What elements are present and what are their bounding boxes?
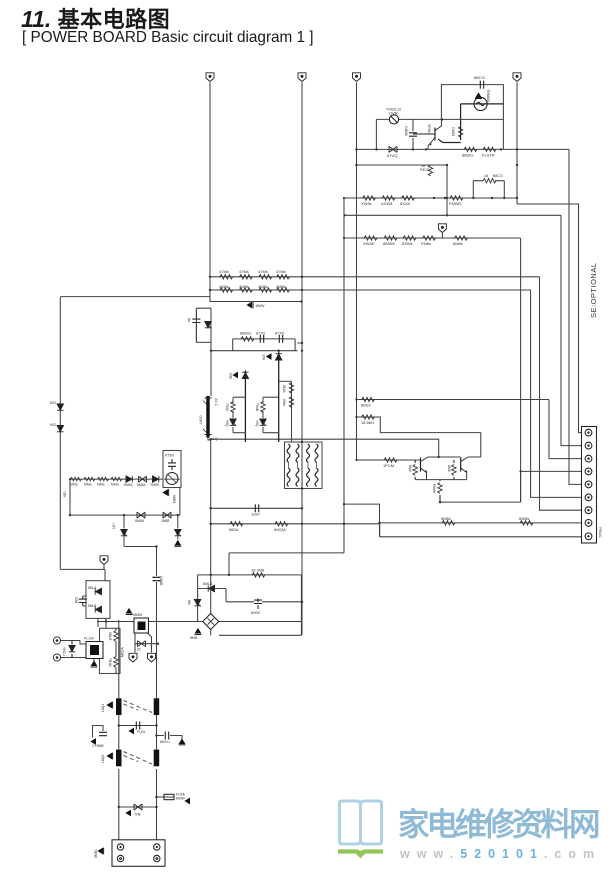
diode D803 — [88, 586, 102, 595]
capacitor C815 — [251, 504, 260, 516]
svg-text:XW88: XW88 — [363, 241, 375, 246]
shield pin A1 — [129, 653, 137, 662]
shunt regulator IC803 — [163, 451, 181, 488]
wire box top row — [198, 574, 302, 576]
wire zener row to AC column — [124, 546, 157, 548]
svg-text:SE:OPTIONAL: SE:OPTIONAL — [589, 262, 598, 318]
svg-text:OVR: OVR — [389, 111, 398, 116]
thermistor TH801 row — [119, 804, 157, 817]
resistor R804 (in box) — [108, 657, 118, 668]
svg-text:MMa: MMa — [97, 483, 105, 487]
svg-text:8WQA: 8WQA — [274, 527, 286, 532]
svg-text:8BCO: 8BCO — [474, 75, 485, 80]
svg-text:8M8s: 8M8s — [441, 516, 451, 521]
wire pin5 feed — [569, 149, 582, 484]
wire diode box to keying box — [97, 618, 99, 627]
svg-text:47Ms: 47Ms — [276, 269, 286, 274]
fuse F801 — [157, 793, 191, 805]
svg-text:8MLB: 8MLB — [108, 632, 112, 640]
wire FET top feed — [97, 618, 134, 628]
svg-text:C8MB: C8MB — [159, 576, 163, 586]
connector shield G8 above row — [438, 224, 446, 238]
arrow mark IC803 — [162, 489, 176, 503]
connector CN3 (top) — [353, 73, 361, 82]
svg-text:Y8Q: Y8Q — [225, 420, 229, 427]
wire y508 row — [209, 507, 302, 509]
resistor R847 — [274, 522, 288, 532]
resistor R846 — [229, 522, 243, 532]
diode D806 on rung — [135, 641, 159, 652]
keying box outline — [100, 628, 121, 673]
resistor R841 — [361, 415, 375, 425]
svg-text:18 8M1: 18 8M1 — [361, 420, 375, 425]
svg-text:T8UA: T8UA — [225, 403, 229, 412]
ground label LF802 — [101, 753, 113, 763]
wire chain left drop — [69, 479, 71, 515]
wire varistor left drop — [375, 119, 377, 149]
lamp NE801 — [474, 97, 487, 110]
svg-text:8M8: 8M8 — [408, 465, 412, 472]
wire Q802 collector — [468, 456, 481, 458]
diode D805 — [198, 582, 226, 592]
svg-text:XW8s: XW8s — [361, 201, 372, 206]
capacitor C802 on right column — [153, 576, 164, 586]
diode D820 — [475, 89, 490, 103]
wire pin7 feed — [540, 277, 582, 510]
wire left column — [59, 297, 61, 569]
svg-text:NS2: NS2 — [50, 401, 56, 405]
svg-text:8MB1: 8MB1 — [94, 849, 98, 858]
ground G801 — [91, 659, 98, 667]
svg-text:8MW8: 8MW8 — [383, 241, 395, 246]
wire y553 row — [229, 552, 344, 554]
winding W5 — [287, 468, 290, 486]
node x344 row198 — [343, 197, 345, 199]
svg-text:P8021: P8021 — [598, 527, 602, 538]
wire main row y149 — [357, 148, 570, 150]
svg-text:CY8MB: CY8MB — [92, 744, 104, 748]
wire y524 row — [209, 523, 379, 525]
svg-text:PL100: PL100 — [84, 637, 94, 641]
diode D865 — [150, 476, 159, 487]
svg-text:FM8s: FM8s — [421, 241, 431, 246]
resistor R812 — [219, 284, 233, 292]
svg-text:8MA8: 8MA8 — [135, 519, 144, 523]
wire y504 link — [344, 504, 380, 537]
resistor R843 (emitter left, dark) — [408, 460, 417, 480]
svg-text:8M63: 8M63 — [124, 483, 133, 487]
wire y417 row with corner — [357, 417, 481, 457]
wire pin4 stub — [521, 470, 582, 472]
capacitor C810 — [275, 331, 285, 343]
svg-text:8XX8: 8XX8 — [400, 201, 411, 206]
connector P802 (output, right) — [582, 427, 603, 544]
diode D811 column (dark) — [229, 370, 249, 442]
node CN3-y399 — [355, 398, 357, 400]
diode D866 — [135, 512, 145, 523]
svg-text:8MCU: 8MCU — [160, 740, 170, 744]
winding W6 — [296, 468, 299, 486]
svg-text:8MLB: 8MLB — [88, 604, 96, 608]
svg-text:880A: 880A — [229, 527, 239, 532]
resistor R863 — [97, 477, 108, 486]
resistor R824 hanging — [420, 164, 433, 176]
resistor R851 — [441, 516, 455, 525]
resistor R840 — [361, 397, 375, 407]
svg-text:4M8s: 4M8s — [276, 284, 286, 289]
line filter LF801 — [116, 698, 159, 715]
node y504 — [343, 503, 345, 505]
svg-text:47Ms: 47Ms — [239, 269, 249, 274]
wire AC right column — [156, 547, 158, 840]
svg-text:www.520101.com: www.520101.com — [399, 847, 601, 861]
node CN3-y417 — [355, 416, 357, 418]
resistor R861 — [70, 477, 81, 486]
wire emitter bottom row — [415, 479, 467, 481]
transformer L800 primary bar — [199, 396, 218, 441]
resistor R831 — [383, 236, 397, 246]
wire lamp left drop — [460, 104, 462, 140]
winding W8 — [315, 468, 318, 486]
wire row3 y301.5 — [209, 301, 301, 303]
varistor TH801 — [386, 107, 402, 125]
diode D863 — [124, 476, 133, 487]
capacitor C821 (vertical) — [404, 119, 417, 149]
transistor Q802 — [461, 457, 469, 480]
resistor stack R817/R818 — [279, 381, 294, 442]
resistor R829 — [449, 196, 463, 206]
capacitor C812 — [256, 331, 266, 343]
svg-text:8M: 8M — [187, 600, 191, 605]
photocoupler IC801 — [84, 637, 103, 659]
FET Q803 — [132, 613, 149, 633]
wire bridge left to keying — [149, 621, 203, 623]
svg-text:C8M8: C8M8 — [404, 126, 408, 136]
svg-text:1100: 1100 — [251, 512, 260, 517]
svg-text:1N?: 1N? — [112, 523, 116, 529]
svg-text:8MLA: 8MLA — [88, 586, 97, 590]
wire y399 row — [357, 399, 550, 401]
svg-text:FLSTR: FLSTR — [482, 153, 495, 158]
svg-text:800W: 800W — [176, 797, 186, 801]
resistor R832 — [402, 236, 416, 246]
svg-text:F8CO: F8CO — [420, 168, 430, 172]
wire bridge right output — [219, 621, 302, 623]
wire CN4 vertical — [516, 83, 518, 205]
wire x447 drop — [446, 165, 448, 215]
wire in-box vertical — [115, 628, 117, 673]
wire AC left column — [118, 620, 120, 840]
svg-text:JM88: JM88 — [161, 519, 169, 523]
resistor R810 — [258, 269, 272, 279]
svg-text:8XWs: 8XWs — [402, 241, 413, 246]
shield pin A2 — [148, 653, 156, 662]
svg-text:4M8s: 4M8s — [219, 284, 229, 289]
svg-text:NS2: NS2 — [50, 423, 56, 427]
svg-text:SP801: SP801 — [427, 124, 431, 135]
gate cluster right — [255, 397, 279, 433]
AC inlet connector P801 — [112, 840, 165, 867]
node base junction — [355, 459, 357, 461]
svg-text:84X: 84X — [262, 353, 266, 360]
ground G805 — [190, 628, 201, 640]
ground arrow above FET — [126, 608, 133, 615]
svg-text:18 JM8: 18 JM8 — [251, 568, 265, 573]
wire x229 drop — [228, 553, 230, 575]
wire FET legs — [135, 633, 152, 653]
transistor Q820 — [413, 119, 441, 149]
zener ZD805 — [187, 600, 201, 607]
svg-text:M02A: M02A — [121, 647, 125, 657]
wire row y165 — [357, 164, 448, 166]
wire pin8 feed — [531, 290, 582, 497]
svg-text:6000: 6000 — [251, 610, 261, 615]
svg-text:87X2: 87X2 — [256, 331, 266, 336]
svg-text:YM65: YM65 — [150, 483, 159, 487]
wire left link to feedback column — [60, 296, 210, 298]
svg-text:47Ms: 47Ms — [219, 269, 229, 274]
svg-text:家电维修资料网: 家电维修资料网 — [398, 806, 599, 842]
diode D802b on column — [50, 423, 64, 432]
winding W2 — [296, 444, 299, 462]
wire bridge top — [210, 575, 212, 614]
diode D867 — [161, 512, 171, 523]
svg-text:KT3N: KT3N — [165, 454, 174, 458]
terminal T2 — [53, 654, 86, 661]
capacitor C807 right stub — [157, 732, 186, 745]
wire row2 y290 — [210, 289, 531, 291]
diode D802a on column — [50, 401, 64, 410]
winding W4 — [315, 444, 318, 462]
wire box left edge — [232, 339, 234, 351]
capacitor C803 — [74, 596, 87, 606]
resistor R862 — [84, 477, 95, 486]
svg-text:818A: 818A — [282, 385, 286, 393]
zener ZD801 — [62, 641, 86, 658]
svg-text:8MB: 8MB — [190, 636, 198, 640]
gate cluster left — [225, 397, 246, 433]
zener ZD820 — [387, 146, 397, 158]
wire lamp row — [461, 103, 504, 105]
svg-text:CM81: CM81 — [451, 127, 455, 137]
resistor R814 — [258, 284, 272, 292]
svg-text:MMa: MMa — [111, 483, 119, 487]
diode D810 column (dark) — [262, 351, 282, 442]
connector CN1 (top) — [206, 73, 214, 82]
zener ZD862 — [174, 515, 181, 546]
wire box right edge — [295, 339, 302, 351]
svg-text:78UM: 78UM — [108, 658, 112, 667]
svg-text:C8B: C8B — [74, 597, 78, 603]
resistor R826 — [361, 196, 376, 206]
wire long row to pin9 — [380, 536, 582, 538]
ground shield G804 — [100, 556, 108, 570]
wire box top — [233, 338, 295, 340]
svg-text:Y8MM: Y8MM — [132, 613, 142, 617]
svg-text:8M8: 8M8 — [447, 465, 451, 472]
wire R823 bottom link — [438, 139, 461, 143]
svg-text:MMa: MMa — [84, 483, 92, 487]
svg-text:87UQ: 87UQ — [387, 153, 397, 158]
resistor R803 (in box) — [108, 631, 118, 642]
wire resistor chain row — [70, 478, 164, 480]
svg-text:47Ms: 47Ms — [258, 269, 268, 274]
svg-text:1PCM: 1PCM — [383, 463, 394, 468]
resistor R842 (base) — [383, 458, 397, 468]
svg-text:8M64: 8M64 — [137, 483, 146, 487]
ground label LF801 — [101, 702, 113, 712]
winding mid links — [289, 462, 317, 468]
wire box left edge — [198, 575, 203, 622]
svg-text:T8UB: T8UB — [255, 403, 259, 411]
wire box bottom — [219, 634, 301, 636]
svg-text:888Xs: 888Xs — [462, 153, 473, 158]
transformer outline — [285, 442, 323, 489]
capacitor C820 — [474, 75, 485, 89]
wire feedback bottom row — [70, 514, 180, 516]
line filter LF802 — [116, 750, 159, 767]
wire left joint of long rows — [379, 523, 381, 537]
capacitor C806 — [226, 589, 301, 616]
wire row y238 — [345, 237, 521, 239]
wire CN3 vertical — [356, 83, 358, 461]
transistor Q801 — [421, 457, 429, 480]
resistor R823 (vertical) — [451, 127, 463, 138]
ground P801 — [94, 848, 104, 858]
svg-text:B8CO: B8CO — [493, 174, 503, 178]
resistor R811 — [276, 269, 290, 279]
svg-text:FMWD: FMWD — [449, 201, 462, 206]
resistor R852 — [519, 516, 533, 525]
node x344 row238 — [343, 237, 345, 239]
resistor R825 bridge — [472, 174, 505, 199]
diode D864 — [137, 476, 147, 487]
wire varistor row — [376, 118, 503, 120]
connector CN2 (top) — [298, 73, 306, 82]
capacitor C804 — [128, 722, 145, 735]
svg-text:AXW8: AXW8 — [381, 201, 393, 206]
zener ZD861 — [112, 515, 127, 546]
svg-text:L8Q2: L8Q2 — [101, 755, 105, 763]
winding W3 — [307, 444, 310, 462]
resistor R845 (common emitter) — [432, 480, 442, 503]
jumper bracket left — [93, 726, 104, 738]
wire Q801 collector to Q802 base — [428, 456, 461, 458]
resistor R834 — [453, 236, 468, 246]
wire CN2 vertical — [301, 83, 303, 636]
wire box bottom — [211, 350, 298, 352]
svg-text:PQ0L: PQ0L — [137, 730, 146, 734]
svg-text:Y8Q: Y8Q — [255, 420, 259, 427]
capacitor C805 — [90, 732, 107, 748]
diode D808 below rows — [246, 302, 265, 309]
svg-text:4M8s: 4M8s — [239, 284, 249, 289]
diode D804 — [88, 604, 102, 613]
wire y439 collector feed — [211, 439, 439, 456]
wire x344 column — [343, 198, 345, 553]
resistor R830 — [363, 236, 377, 246]
wire cap row between columns — [119, 725, 157, 727]
svg-text:L800: L800 — [199, 416, 203, 424]
svg-text:888Xs: 888Xs — [240, 331, 251, 336]
wire box right edge — [300, 575, 302, 635]
resistor R844 (emitter right, dark) — [447, 460, 456, 480]
bridge rectifier D801 — [203, 614, 219, 630]
svg-text:TH8: TH8 — [134, 813, 141, 817]
resistor R809 — [239, 269, 252, 279]
svg-text:8MX: 8MX — [229, 372, 233, 379]
svg-text:8MW: 8MW — [256, 304, 265, 308]
svg-text:8MB3: 8MB3 — [172, 495, 176, 504]
watermark book icon — [338, 801, 383, 857]
wire top cap loop — [441, 85, 503, 150]
wire bridge bottom — [210, 630, 212, 636]
resistor R820 — [462, 147, 477, 157]
wire pin3 feed — [549, 400, 582, 459]
resistor R827 — [381, 196, 395, 206]
resistor R808 — [219, 269, 233, 279]
resistor R815 — [276, 284, 290, 292]
winding W1 — [287, 444, 290, 462]
wire left col bottom — [60, 569, 105, 580]
svg-text:Y8D: Y8D — [63, 491, 67, 498]
winding W7 — [307, 468, 310, 486]
svg-text:8M8s: 8M8s — [453, 241, 463, 246]
resistor R816 — [240, 331, 254, 342]
node chain-left — [69, 478, 71, 480]
svg-text:8X: 8X — [137, 648, 142, 652]
zener ZD808 — [205, 322, 212, 329]
svg-text:838a: 838a — [282, 399, 286, 406]
wire emitter to bus — [440, 471, 521, 502]
svg-text:R8M8: R8M8 — [432, 484, 436, 493]
svg-text:Y8CU: Y8CU — [62, 647, 66, 656]
diode box outline — [86, 581, 110, 619]
svg-text:24 C: 24 C — [214, 398, 218, 406]
wire row y198 — [345, 197, 518, 199]
wire CN1 vertical — [209, 83, 211, 302]
svg-text:18: 18 — [484, 174, 488, 178]
wire base row — [357, 459, 421, 461]
svg-text:8M2s: 8M2s — [361, 403, 371, 408]
svg-text:4M8s: 4M8s — [258, 284, 268, 289]
svg-text:8MLA: 8MLA — [203, 582, 213, 586]
terminal T1 — [53, 637, 80, 644]
svg-text:87X0: 87X0 — [275, 331, 285, 336]
svg-text:L8Q1: L8Q1 — [101, 704, 105, 712]
wire IC803 right edge drop — [179, 488, 181, 516]
resistor R828 — [400, 196, 415, 206]
resistor R864 — [111, 477, 122, 486]
svg-text:8W8s: 8W8s — [519, 516, 529, 521]
wire snubber loop — [196, 308, 211, 342]
wire pin4 feed — [520, 238, 522, 502]
resistor R805 — [251, 568, 265, 578]
wire L800 bottom to row — [208, 438, 211, 575]
svg-text:8a: 8a — [187, 318, 191, 322]
capacitor C808 — [187, 308, 200, 342]
wire long row to pin8 — [380, 522, 582, 524]
wire pin2 feed — [561, 215, 582, 445]
connector CN4 (top) — [513, 73, 521, 82]
resistor R813 — [239, 284, 252, 292]
wire row y215 — [345, 214, 561, 216]
wire pin1 feed — [517, 204, 582, 433]
wire L800 column upper — [210, 342, 212, 396]
resistor R833 — [421, 236, 436, 246]
wire row1 y276.8 — [210, 276, 540, 278]
svg-text:MMa: MMa — [70, 483, 78, 487]
